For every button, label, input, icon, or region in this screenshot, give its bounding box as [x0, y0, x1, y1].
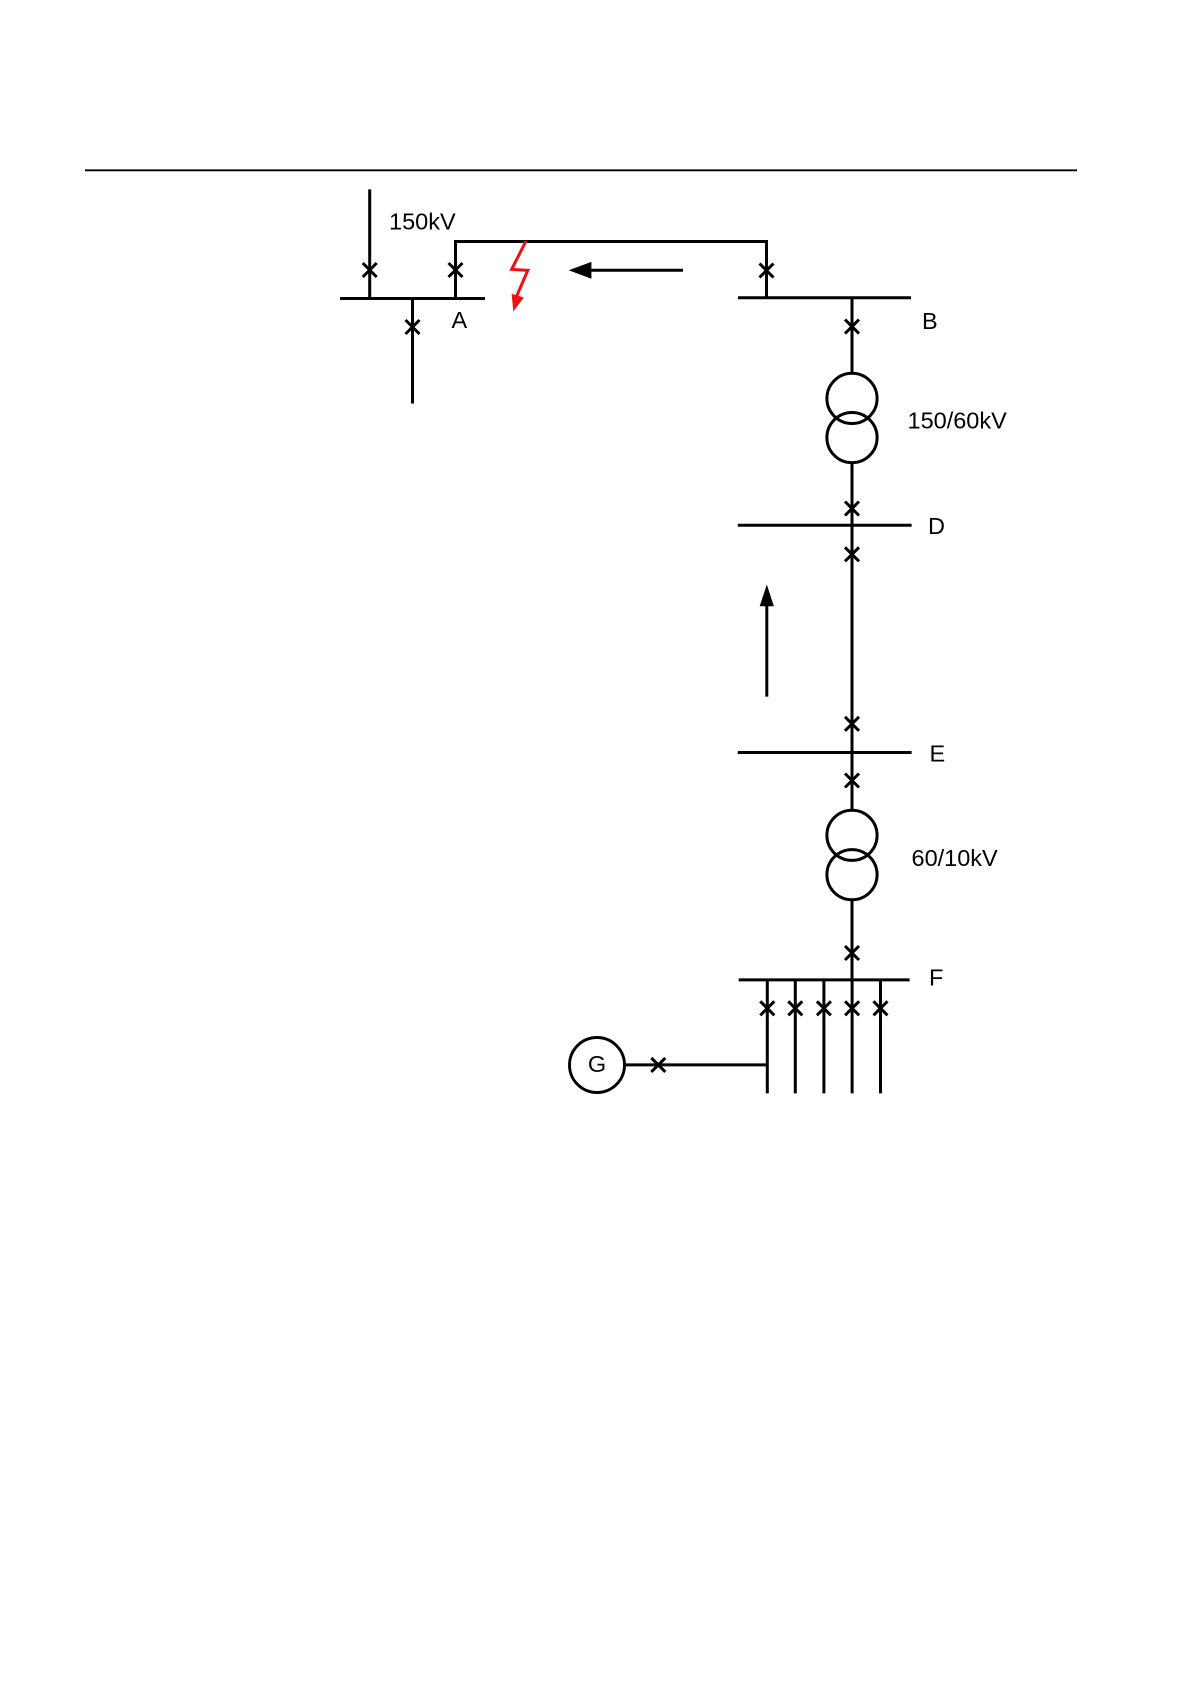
breaker above bus D [845, 502, 859, 516]
feeder 4 below bus F [851, 980, 854, 1094]
busbar A [340, 297, 485, 300]
feeder 1 below bus F [766, 980, 769, 1094]
wire generator to feeder 1 [625, 1063, 767, 1066]
breaker below bus E [845, 774, 859, 788]
breaker above bus E [845, 717, 859, 731]
svg-text:D: D [928, 513, 945, 539]
svg-text:G: G [588, 1051, 606, 1077]
fault current arrow left [569, 262, 683, 279]
wire incoming feeder to bus A [368, 189, 371, 298]
svg-text:150/60kV: 150/60kV [908, 408, 1008, 434]
svg-text:E: E [930, 740, 946, 766]
fault lightning bolt [512, 241, 528, 310]
busbar E [738, 751, 912, 754]
breaker at bus A end of tie line [449, 263, 463, 277]
wire bus B to transformer T1 [851, 298, 854, 374]
load current arrow up [760, 585, 774, 697]
wire feeder below bus A [411, 299, 414, 404]
breaker feeder 4 [845, 1001, 859, 1015]
svg-text:150kV: 150kV [389, 209, 456, 235]
wire from bus A up and across to bus B [456, 242, 767, 299]
busbar D [738, 524, 912, 527]
feeder 2 below bus F [794, 980, 797, 1094]
svg-text:B: B [922, 308, 938, 334]
wire line D to E [851, 525, 854, 752]
busbar B [738, 296, 911, 299]
wire T2 to bus F [851, 899, 854, 980]
breaker feeder 3 [817, 1001, 831, 1015]
wire T1 to bus D [851, 462, 854, 525]
generator G [570, 1038, 625, 1093]
feeder 3 below bus F [822, 980, 825, 1094]
svg-text:F: F [929, 965, 943, 991]
svg-text:A: A [452, 307, 468, 333]
busbar F [739, 978, 910, 981]
transformer T2 60/10kV [827, 810, 877, 900]
breaker below bus D [845, 547, 859, 561]
feeder 5 below bus F [879, 980, 882, 1094]
transformer T1 150/60kV [827, 373, 877, 462]
breaker generator [651, 1058, 665, 1072]
breaker below bus B [845, 320, 859, 334]
breaker on incoming feeder [363, 263, 377, 277]
breaker feeder 5 [874, 1001, 888, 1015]
breaker feeder 1 [760, 1001, 774, 1015]
breaker at bus B end of tie line [760, 264, 774, 278]
svg-text:60/10kV: 60/10kV [912, 845, 999, 871]
wire bus E to transformer T2 [851, 753, 854, 812]
horizontal rule [85, 169, 1077, 171]
breaker below bus A [406, 320, 420, 334]
breaker above bus F [845, 946, 859, 960]
breaker feeder 2 [788, 1001, 802, 1015]
